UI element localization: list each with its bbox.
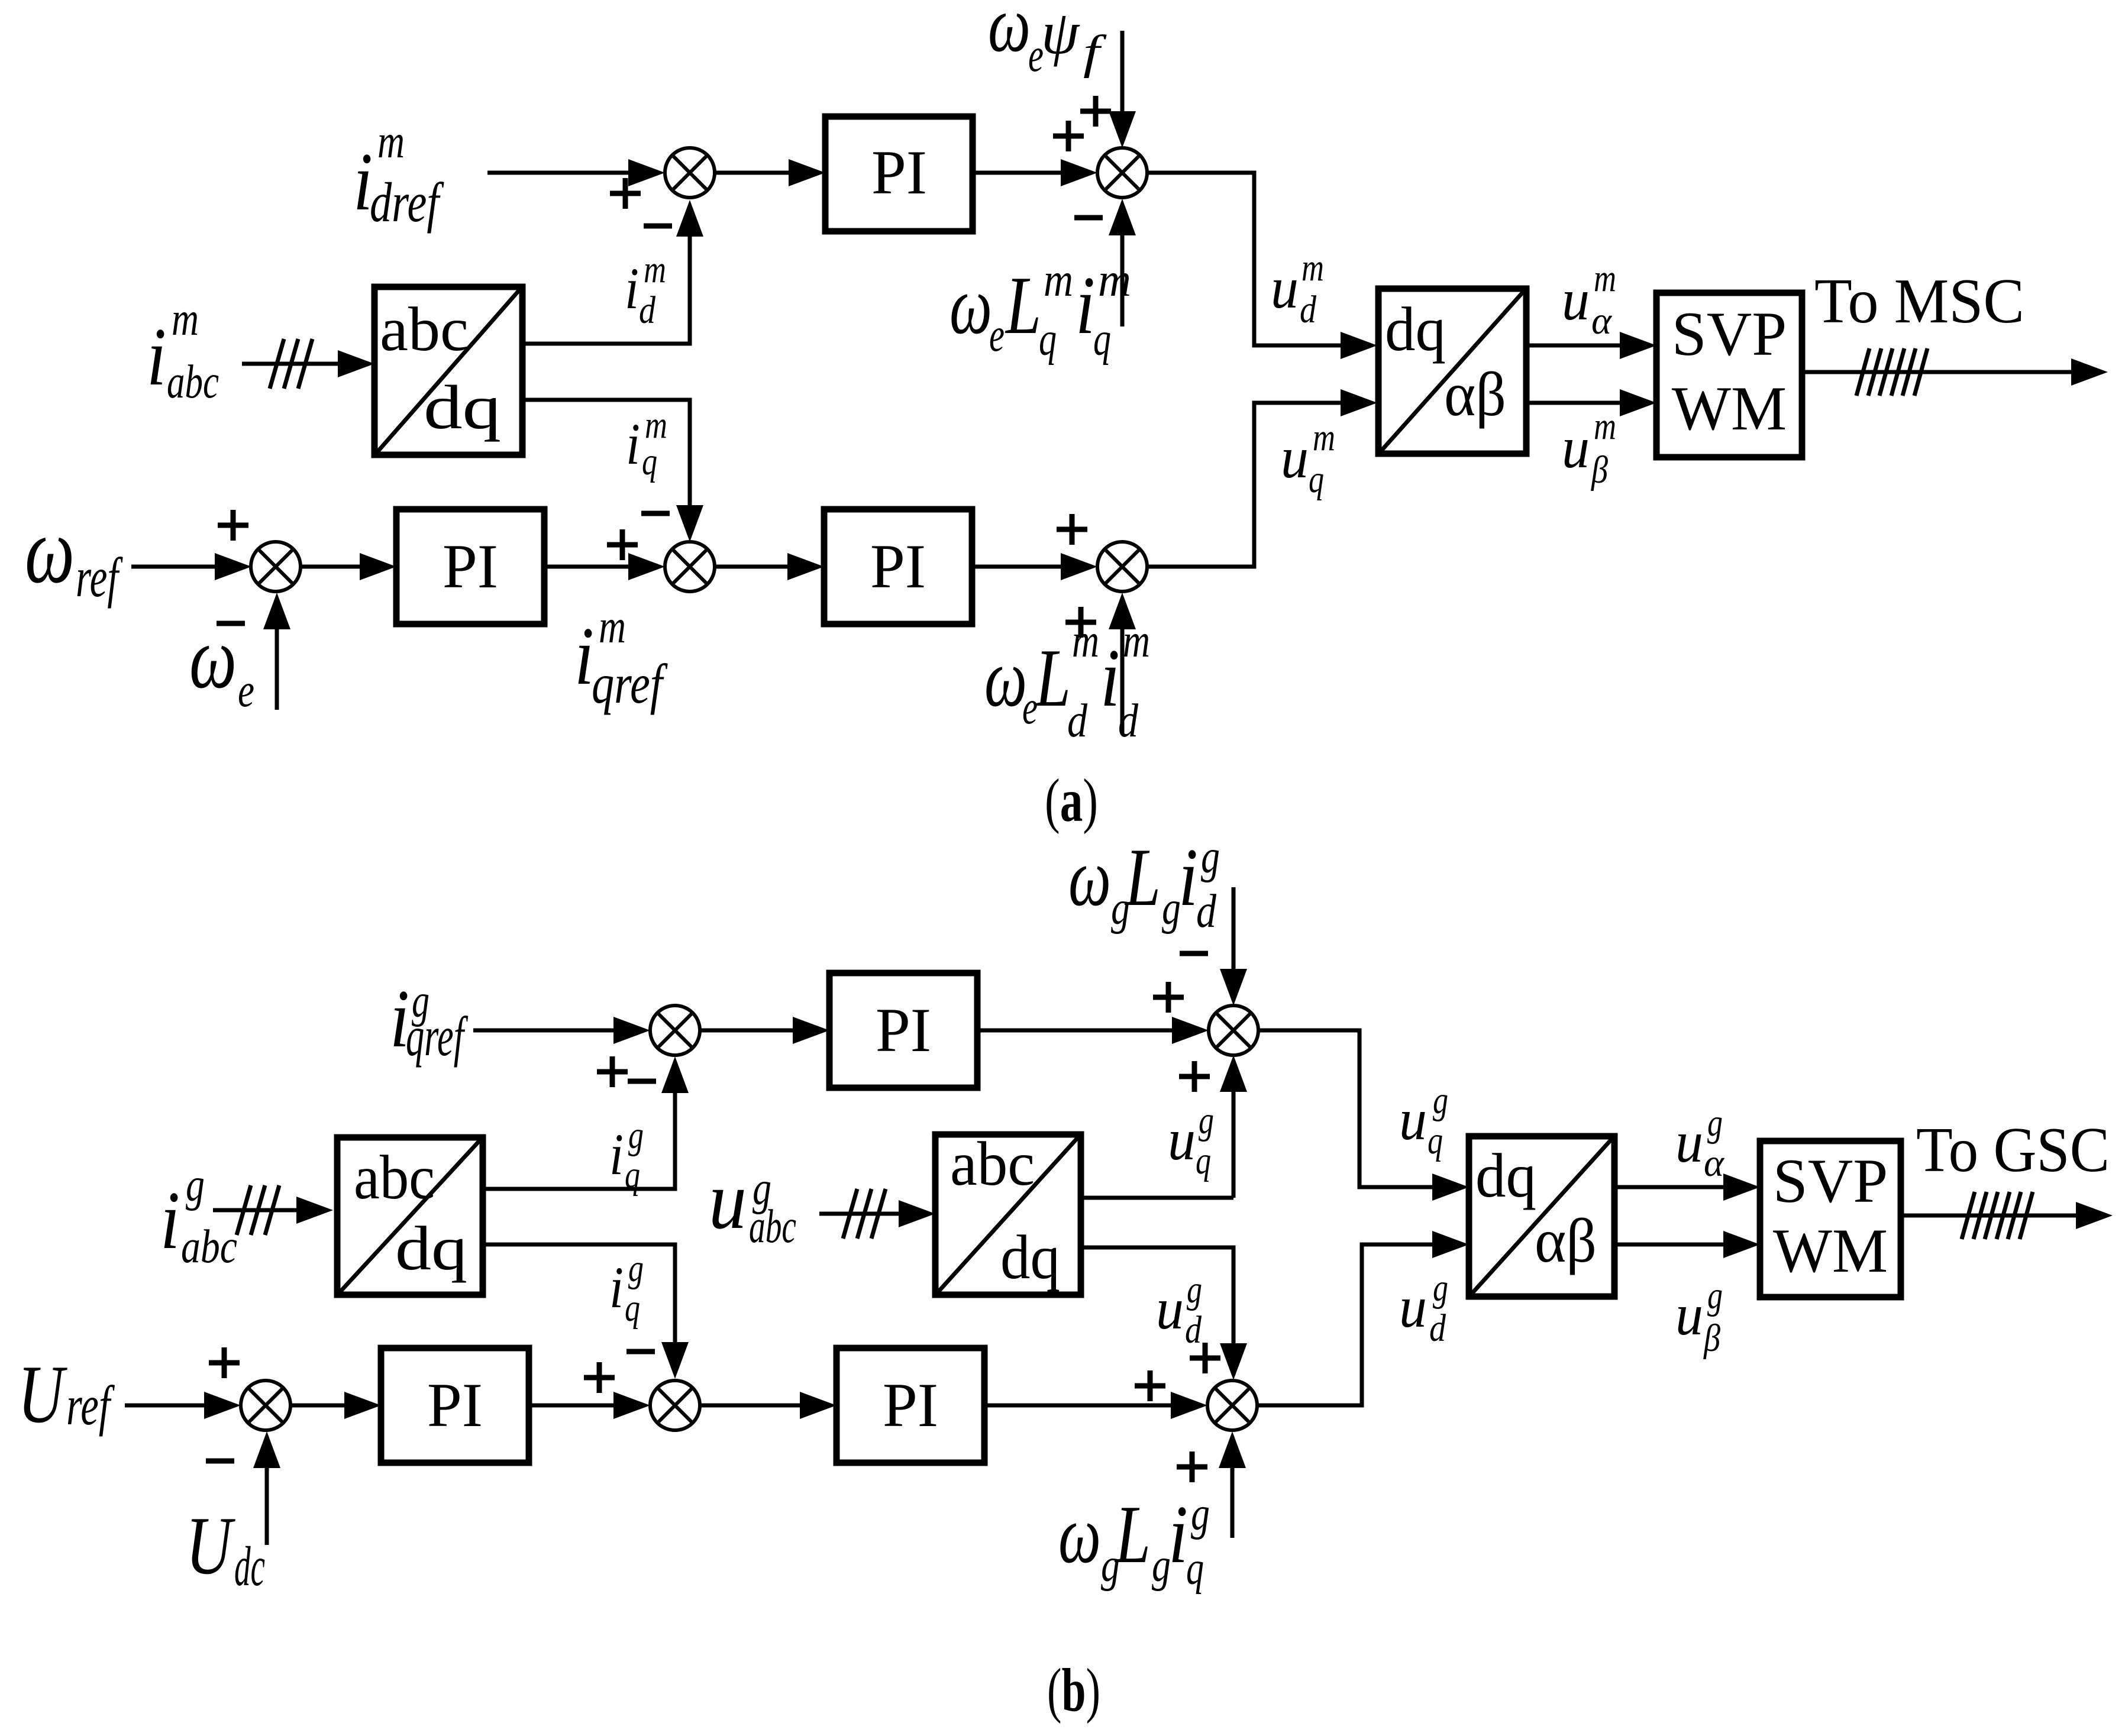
wire i_qref to S6 (473, 1029, 613, 1033)
block SVPWM (a) (1656, 293, 1802, 457)
svg-text:d: d (1067, 695, 1088, 747)
wire u_q_g up into S10 (1232, 1092, 1236, 1198)
svg-text:abc: abc (181, 1221, 237, 1273)
svg-text:g: g (1199, 1099, 1214, 1142)
block PI6 grid d current regulator (837, 1348, 984, 1463)
summing junction S9 (1207, 1381, 1257, 1430)
wire PI1 to S2 (973, 171, 1062, 175)
wire i_d feedback from abc-dq up into S1 (522, 237, 690, 344)
svg-text:dq: dq (1385, 295, 1446, 364)
svg-text:u: u (1156, 1276, 1184, 1341)
svg-text:m: m (172, 293, 199, 345)
svg-text:m: m (1313, 416, 1335, 459)
minus sign S10 top input (1180, 951, 1208, 956)
svg-text:g: g (1433, 1079, 1448, 1122)
plus sign S1 left input (610, 191, 641, 196)
svg-text:u: u (1281, 425, 1309, 490)
wire omega_g Lg id down into S10 (1232, 887, 1236, 969)
plus sign S4 left input (607, 542, 638, 548)
svg-text:WM: WM (1773, 1216, 1888, 1285)
svg-text:g: g (1707, 1101, 1723, 1145)
block dq to alphabeta transform (b) (1469, 1136, 1614, 1297)
svg-text:m: m (377, 116, 405, 168)
wire omega_e up into S3 (275, 629, 279, 710)
svg-text:u: u (1562, 415, 1590, 480)
output wire SVPWM to MSC with gate slashes (1802, 370, 2072, 374)
wire u_q_g from right abc-dq toward S10 (1081, 1196, 1233, 1200)
svg-text:u: u (1271, 255, 1299, 321)
svg-text:u: u (1399, 1274, 1427, 1340)
plus sign S3 left input (218, 523, 248, 528)
wire PI4 to S10 (977, 1029, 1172, 1033)
svg-text:i: i (147, 311, 166, 403)
svg-text:ref: ref (76, 546, 123, 609)
svg-text:q: q (1428, 1119, 1443, 1162)
svg-text:d: d (1300, 288, 1317, 331)
wire omega_e Ld id up into S5 (1120, 629, 1125, 733)
wire S5 to dq-alphabeta block u_q (1147, 403, 1341, 567)
svg-text:To MSC: To MSC (1814, 266, 2024, 337)
svg-text:i: i (625, 256, 639, 321)
summing junction S3 (251, 542, 301, 591)
wire S8 to PI6 (700, 1404, 800, 1408)
wire u_alpha_g dq to SVPWM (b) (1614, 1185, 1723, 1189)
wire omega_e Lq iq up into S2 (1120, 235, 1125, 326)
svg-text:q: q (1039, 313, 1057, 366)
wire S9 to dq-alphabeta (b) u_d (1257, 1244, 1432, 1405)
svg-text:g: g (1187, 1268, 1202, 1311)
svg-text:g: g (628, 1247, 644, 1290)
wire u_d_g from right abc-dq down into S9 (1081, 1247, 1233, 1343)
svg-text:q: q (642, 440, 657, 483)
minus sign S3 bottom input (217, 621, 245, 626)
block abc to dq transform (a) (374, 287, 522, 455)
svg-text:m: m (1044, 254, 1073, 306)
svg-text:αβ: αβ (1444, 360, 1506, 429)
svg-text:dq: dq (1000, 1223, 1060, 1292)
wire omega_e psi_f down into S2 (1120, 31, 1125, 112)
block PI2 speed regulator (396, 509, 544, 624)
wire PI2 to S4 (544, 565, 628, 569)
svg-text:g: g (1433, 1266, 1448, 1310)
svg-text:SVP: SVP (1773, 1146, 1888, 1215)
svg-text:i: i (160, 1175, 180, 1266)
svg-text:u: u (709, 1155, 747, 1246)
svg-text:i: i (609, 1121, 624, 1187)
block PI1 d-axis current regulator (825, 117, 973, 231)
minus sign S6 bottom input (628, 1079, 656, 1084)
svg-text:α: α (1704, 1142, 1724, 1185)
svg-text:ω: ω (950, 260, 992, 351)
wire i_dref to S1 (487, 171, 629, 175)
svg-text:d: d (1118, 695, 1139, 747)
plus sign S10 bottom input (1179, 1074, 1210, 1079)
svg-text:PI: PI (871, 138, 927, 207)
summing junction S2 (1097, 148, 1147, 198)
svg-text:m: m (1098, 254, 1131, 306)
svg-text:dref: dref (370, 171, 444, 234)
block SVPWM (b) (1760, 1141, 1901, 1297)
svg-text:q: q (1196, 1139, 1211, 1182)
output wire SVPWM to GSC with gate slashes (1901, 1214, 2077, 1218)
svg-text:αβ: αβ (1535, 1206, 1597, 1275)
wire S2 to dq-alphabeta block u_d (1147, 173, 1341, 345)
svg-text:q: q (1093, 313, 1111, 366)
wire S10 to dq-alphabeta (b) u_q (1258, 1030, 1432, 1187)
svg-text:qref: qref (406, 1005, 469, 1068)
plus sign S2 left input (1053, 134, 1084, 139)
svg-text:ω: ω (984, 632, 1027, 724)
svg-text:dq: dq (1475, 1141, 1536, 1210)
svg-text:abc: abc (354, 1143, 435, 1212)
svg-text:i: i (1076, 260, 1095, 351)
svg-text:abc: abc (950, 1129, 1035, 1198)
svg-text:e: e (238, 665, 254, 717)
svg-text:g: g (1707, 1274, 1723, 1317)
svg-text:u: u (1675, 1282, 1703, 1347)
plus sign S5 bottom input (1065, 620, 1096, 625)
svg-text:i: i (1168, 1489, 1188, 1580)
svg-text:PI: PI (876, 995, 931, 1065)
wire U_dc up into S7 (265, 1467, 269, 1545)
svg-text:(b): (b) (1047, 1656, 1100, 1724)
wire PI3 to S5 (972, 565, 1061, 569)
svg-text:abc: abc (749, 1201, 796, 1253)
wire u_beta_g dq to SVPWM (b) (1614, 1243, 1723, 1247)
block abc to dq transform (b) left (337, 1137, 483, 1295)
wire i_q_g feedback down into S8 (483, 1244, 675, 1342)
wire i_abc to abc-dq block with 3-phase slashes (242, 362, 339, 366)
wire U_ref to S7 (125, 1404, 204, 1408)
plus sign S9 left input (1135, 1383, 1165, 1389)
wire S7 to PI5 (290, 1404, 344, 1408)
svg-text:ref: ref (66, 1374, 115, 1437)
svg-text:u: u (1562, 267, 1590, 332)
svg-text:ω: ω (1068, 832, 1111, 923)
wire S1 to PI1 (715, 171, 790, 175)
block dq to alphabeta transform (a) (1378, 289, 1526, 454)
summing junction S10 (1209, 1006, 1258, 1055)
summing junction S8 (650, 1381, 700, 1430)
svg-text:dq: dq (424, 373, 501, 442)
plus sign S9 top input (1190, 1356, 1220, 1361)
wire i_abc_g to abc-dq left block with slashes (213, 1208, 296, 1213)
svg-text:d: d (1185, 1308, 1202, 1352)
svg-text:q: q (625, 1286, 640, 1330)
minus sign S4 top input (641, 511, 670, 516)
wire PI6 to S9 (984, 1404, 1171, 1408)
wire S4 to PI3 (715, 565, 787, 569)
svg-text:i: i (609, 1255, 624, 1320)
svg-text:g: g (628, 1114, 644, 1157)
svg-text:d: d (1196, 885, 1217, 937)
minus sign S1 bottom input (644, 224, 672, 229)
svg-text:m: m (599, 601, 626, 653)
svg-text:L: L (1124, 832, 1161, 923)
wire u_alpha dq to SVPWM (1526, 344, 1620, 348)
plus sign S2 top input (1080, 109, 1111, 114)
svg-text:α: α (1591, 299, 1612, 342)
svg-text:i: i (1100, 632, 1120, 724)
svg-text:L: L (1034, 632, 1071, 724)
svg-text:q: q (625, 1153, 640, 1197)
svg-text:d: d (639, 289, 656, 332)
plus sign S10 left input (1153, 995, 1184, 1000)
block PI3 q-axis current regulator (824, 509, 972, 624)
wire i_q feedback from abc-dq down into S4 (522, 400, 690, 505)
svg-text:dq: dq (395, 1214, 467, 1283)
svg-text:β: β (1703, 1317, 1720, 1360)
minus sign S7 bottom input (206, 1459, 234, 1464)
summing junction S1 (665, 148, 715, 198)
svg-text:m: m (1072, 615, 1099, 667)
svg-text:u: u (1399, 1087, 1427, 1152)
svg-text:L: L (1114, 1489, 1151, 1580)
svg-text:qref: qref (592, 652, 668, 715)
wire u_beta dq to SVPWM (1526, 401, 1620, 405)
svg-text:g: g (186, 1159, 205, 1211)
svg-text:ω: ω (988, 0, 1031, 69)
summing junction S6 (650, 1006, 700, 1055)
svg-text:abc: abc (167, 356, 219, 408)
plus sign S7 left input (209, 1360, 240, 1366)
plus sign S9 bottom input (1177, 1465, 1207, 1470)
svg-text:g: g (1201, 831, 1220, 883)
svg-text:dc: dc (234, 1535, 265, 1598)
minus sign S8 top input (626, 1349, 655, 1354)
block abc to dq transform (b) right (935, 1134, 1081, 1295)
svg-text:g: g (1191, 1488, 1210, 1540)
svg-text:PI: PI (427, 1370, 483, 1440)
svg-text:q: q (1186, 1543, 1204, 1595)
plus sign S8 left input (584, 1375, 615, 1381)
svg-text:m: m (1594, 405, 1616, 448)
svg-text:ω: ω (1058, 1489, 1101, 1580)
svg-text:PI: PI (870, 532, 926, 601)
svg-text:u: u (1675, 1109, 1703, 1175)
svg-text:i: i (1178, 832, 1198, 923)
svg-text:(a): (a) (1045, 767, 1098, 835)
wire u_abc_g to abc-dq right block with slashes (819, 1212, 902, 1216)
svg-text:PI: PI (443, 532, 498, 601)
wire S3 to PI2 (301, 565, 360, 569)
svg-text:f: f (1083, 27, 1107, 79)
plus sign S5 left input (1057, 527, 1087, 532)
wire PI5 to S8 (529, 1404, 613, 1408)
svg-text:m: m (644, 248, 666, 291)
svg-text:m: m (1302, 246, 1324, 289)
svg-text:m: m (1123, 615, 1150, 667)
svg-text:d: d (1429, 1307, 1446, 1350)
svg-text:i: i (626, 411, 640, 477)
svg-text:L: L (1005, 260, 1041, 351)
svg-text:To GSC: To GSC (1916, 1115, 2110, 1185)
svg-text:β: β (1590, 448, 1608, 492)
block PI4 grid q current regulator (829, 973, 977, 1088)
plus sign S6 left input (597, 1069, 628, 1075)
wire omega_g Lg iq up into S9 (1231, 1467, 1235, 1538)
svg-text:e: e (989, 309, 1005, 361)
block PI5 dc voltage regulator (381, 1348, 529, 1463)
svg-text:ψ: ψ (1041, 0, 1080, 67)
summing junction S4 (665, 542, 715, 591)
svg-text:ω: ω (25, 497, 75, 603)
svg-text:abc: abc (380, 295, 469, 364)
svg-text:ω: ω (189, 609, 237, 707)
svg-text:m: m (1594, 257, 1616, 300)
svg-text:q: q (1309, 458, 1324, 501)
svg-text:u: u (1168, 1107, 1196, 1172)
svg-text:PI: PI (883, 1370, 938, 1440)
summing junction S7 (241, 1381, 290, 1430)
wire i_q_g feedback up into S6 (483, 1093, 675, 1189)
svg-text:SVP: SVP (1672, 299, 1787, 368)
minus sign S2 bottom input (1074, 215, 1103, 221)
svg-text:U: U (18, 1349, 67, 1440)
wire S6 to PI4 (700, 1029, 793, 1033)
svg-text:WM: WM (1672, 374, 1787, 443)
summing junction S5 (1097, 542, 1147, 591)
wire omega_ref to S3 (131, 565, 215, 569)
svg-text:U: U (186, 1500, 235, 1592)
